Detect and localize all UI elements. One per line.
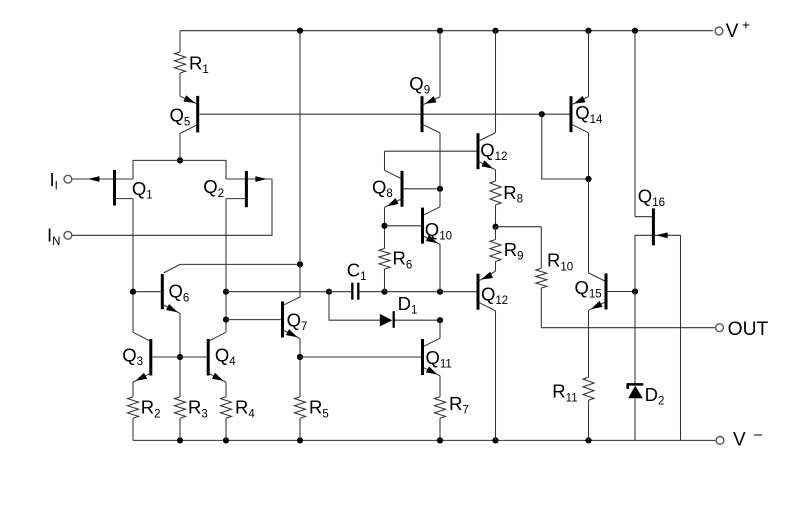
wire D1 branch right	[395, 319, 440, 321]
resistor R7	[435, 393, 469, 418]
wire Q1 source to Q3 collector	[132, 331, 134, 333]
wire Q6 collector to Q7 column	[180, 263, 300, 265]
terminal II	[50, 169, 72, 193]
node R8/R9/R10	[492, 224, 498, 230]
wire C1 line right	[385, 291, 441, 293]
wire Q4 emitter down	[225, 382, 227, 397]
resistor R11	[552, 377, 594, 404]
wire Q11 base	[300, 356, 421, 358]
node V-/Q12 collector	[492, 437, 498, 443]
svg-text:+: +	[742, 18, 750, 33]
wire V+ to Q16 drain	[634, 31, 636, 217]
resistor R6	[379, 248, 412, 272]
wire Q1 source down	[132, 199, 134, 332]
node Q6 emitter/Q3-Q4 base	[177, 354, 183, 360]
transistor Q8	[372, 170, 402, 207]
node Q8 base/Q9-Q10 collectors	[437, 186, 443, 192]
transistor Q10	[423, 207, 452, 245]
diode D2	[628, 384, 665, 408]
node Q6 collector/Q7 collector	[297, 261, 303, 267]
node V-/R5	[297, 437, 303, 443]
node V+/Q9 emitter	[437, 28, 443, 34]
resistor R5	[295, 397, 329, 421]
transistor Q6	[162, 264, 189, 313]
wire R9 top lead	[495, 227, 497, 240]
wire Q7 collector up	[299, 31, 301, 297]
wire R2 bottom lead	[132, 418, 134, 440]
wire Q12 emitter to R8	[495, 170, 497, 181]
node V-/R7	[437, 437, 443, 443]
node Q14 base tie	[539, 111, 545, 117]
transistor Q4	[208, 332, 236, 382]
resistor R9	[490, 239, 523, 263]
wire Q7 base	[226, 319, 281, 321]
wire R4 bottom lead	[225, 418, 227, 440]
node Q2 source/Q7 base	[223, 317, 229, 323]
terminal OUT	[716, 319, 769, 340]
wire Q12 base (upper)	[385, 150, 477, 152]
transistor Q12 (lower)	[478, 271, 508, 311]
wire Q11 collector up	[439, 320, 441, 338]
wire Q11 emitter down	[439, 376, 441, 397]
transistor Q11	[423, 338, 452, 376]
svg-text:–: –	[754, 426, 763, 443]
wire C1 left lead	[329, 291, 351, 293]
wire Q6 emitter down	[179, 313, 181, 396]
node Q1 source/Q6 base	[130, 289, 136, 295]
svg-text:V: V	[733, 429, 746, 450]
node V-/R11	[585, 437, 591, 443]
transistor Q15	[575, 273, 607, 310]
wire Q15 emitter down	[588, 310, 590, 377]
wire R10 bottom lead	[540, 288, 542, 328]
wire Q10 collector up	[439, 189, 441, 207]
wire R5 bottom lead	[299, 418, 301, 440]
wire Q3-Q4 base line	[152, 356, 207, 358]
wire Q8 base	[404, 188, 441, 190]
wire Q12 collector down	[495, 311, 497, 441]
resistor R1	[175, 52, 209, 76]
node Q5/input pair	[177, 157, 183, 163]
wire R8 bottom lead	[495, 205, 497, 227]
wire R11 bottom lead	[588, 400, 590, 440]
wire Q16 source down	[634, 235, 636, 384]
diode D1	[380, 293, 418, 328]
wire Q6 base	[133, 291, 161, 293]
transistor Q12 (upper)	[478, 133, 507, 170]
wire Q9 collector down	[439, 133, 441, 189]
node V+/Q12 collector	[492, 28, 498, 34]
transistor Q1	[72, 170, 153, 206]
wire input pair rail	[133, 160, 226, 179]
transistor Q16	[635, 186, 681, 246]
wire OUT line	[541, 327, 715, 329]
node V-/R3	[177, 437, 183, 443]
wire V- rail	[133, 439, 716, 441]
wire Q8 emitter down	[384, 207, 386, 225]
node Q8 emitter/Q10 base/R6	[381, 223, 387, 229]
resistor R10	[536, 250, 573, 288]
transistor Q7	[283, 297, 308, 339]
capacitor C1	[347, 260, 367, 300]
node Q15 base/Q16 source	[632, 288, 638, 294]
node V+/Q7 collector	[297, 28, 303, 34]
wire C1 line left	[226, 291, 329, 293]
resistor R3	[175, 397, 208, 421]
node V+/Q16 drain	[632, 28, 638, 34]
node Q7 emitter/Q11 base	[297, 354, 303, 360]
svg-text:OUT: OUT	[728, 319, 769, 340]
wire R1 bottom lead	[179, 73, 181, 96]
node V+/Q14 emitter	[585, 28, 591, 34]
wire Q10 emitter down	[439, 244, 441, 291]
node Q14 collector/Q15	[585, 176, 591, 182]
node V-/R4	[223, 437, 229, 443]
wire Q8 collector up	[384, 151, 386, 170]
transistor Q2	[203, 171, 272, 207]
wire D2 bottom lead	[634, 398, 636, 440]
wire Q9 emitter up	[439, 31, 441, 97]
resistor R8	[490, 181, 523, 206]
wire D1 branch left	[329, 292, 380, 321]
wire Q14 base-collector tie	[542, 114, 589, 179]
wire R10 top lead	[540, 227, 542, 269]
wire Q7 emitter down	[299, 339, 301, 397]
node R6/C1 line	[381, 289, 387, 295]
wire R6 top lead	[384, 226, 386, 249]
transistor Q3	[122, 332, 151, 382]
transistor Q9	[409, 73, 440, 133]
wire Q3 emitter down	[132, 382, 134, 397]
resistor R4	[221, 397, 256, 421]
wire Q14 collector down	[588, 133, 590, 179]
terminal V+	[715, 18, 750, 42]
wire Q12 collector up	[495, 31, 497, 133]
resistor R2	[128, 397, 161, 421]
node D1/Q11 collector	[437, 317, 443, 323]
wire Q16 gate down	[680, 235, 682, 440]
wire IN to Q2 gate	[72, 179, 272, 235]
svg-text:V: V	[726, 21, 739, 42]
node Q2 source/C1 line	[223, 289, 229, 295]
wire V+ rail	[180, 30, 713, 32]
wire R3 bottom lead	[179, 418, 181, 440]
transistor Q5	[170, 95, 198, 133]
wire R1 top lead	[179, 31, 181, 52]
terminal V-	[716, 426, 763, 450]
wire Q5 collector	[179, 134, 181, 161]
wire Q2 source down	[225, 199, 227, 332]
terminal IN	[47, 224, 72, 248]
wire R7 bottom lead	[439, 418, 441, 440]
wire Q15 base	[608, 291, 636, 293]
wire C1 right lead	[360, 291, 385, 293]
wire Q10 base	[385, 225, 422, 227]
wire R8 node to R10	[496, 226, 542, 228]
wire Q14 emitter up	[588, 31, 590, 97]
node C1/D1 branch	[326, 289, 332, 295]
wire R6 bottom lead	[384, 269, 386, 292]
transistor Q14	[571, 96, 603, 133]
wire Q12 base (lower)	[440, 291, 477, 293]
wire Q5 base to Q9/Q14	[199, 113, 569, 115]
wire Q14 to Q15 collector	[588, 179, 590, 273]
node C1 line/Q10 emitter	[437, 289, 443, 295]
wire R9 bottom lead	[495, 262, 497, 272]
